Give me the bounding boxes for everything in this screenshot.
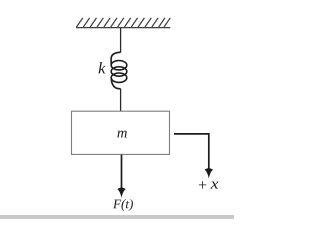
force arrow F(t) shaft [121,155,123,191]
displacement arrow head [205,168,213,179]
label + x : plus sign [199,181,206,188]
wire: spring top lead [120,28,122,53]
spring k: coil loop 3 [111,73,127,82]
wire: spring bottom lead [120,89,122,112]
mass block m [72,111,170,154]
spring k: coil loop 1 [111,60,127,69]
spring k: bottom hook [111,78,120,89]
label F(t) [113,199,133,211]
force arrow F(t) head [117,187,125,198]
bottom gray bar [0,215,234,219]
label m [117,131,126,138]
spring k: coil loop 2 [111,67,127,76]
ceiling line [76,27,170,29]
displacement arrow: horizontal + vertical [174,134,209,171]
ceiling hatching [77,18,171,27]
spring k: top hook [111,52,121,65]
label k [99,62,106,73]
label + x : x [211,181,219,188]
